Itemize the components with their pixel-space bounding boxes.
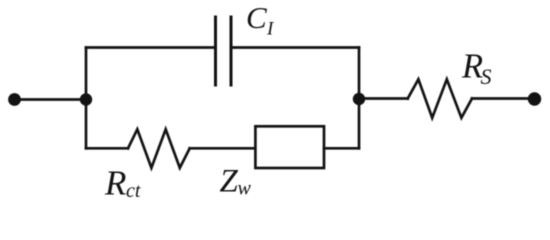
label C1 [246, 0, 275, 40]
svg-text:C: C [246, 0, 267, 35]
label ZW [220, 164, 252, 200]
wire [232, 46, 359, 49]
wire [15, 98, 87, 101]
capacitor C1 [216, 17, 232, 85]
Warburg element ZW [255, 126, 324, 168]
label RS [461, 48, 492, 90]
wire [86, 46, 215, 49]
resistor RS [408, 79, 472, 118]
right terminal node [528, 92, 541, 105]
label Rct [104, 164, 141, 203]
node B (right junction) [353, 93, 365, 105]
wire [190, 147, 256, 150]
wire [358, 48, 361, 149]
wire [85, 48, 88, 149]
wire [324, 147, 359, 150]
left terminal node [8, 93, 21, 106]
svg-text:ct: ct [126, 180, 141, 202]
svg-text:S: S [481, 64, 492, 89]
wire [359, 97, 408, 100]
node A (left junction) [80, 93, 92, 105]
svg-text:w: w [238, 178, 252, 200]
resistor Rct [128, 129, 190, 168]
svg-text:Z: Z [220, 164, 239, 200]
svg-text:R: R [104, 164, 126, 203]
svg-text:I: I [266, 19, 275, 40]
wire [472, 97, 534, 100]
wire [86, 147, 128, 150]
